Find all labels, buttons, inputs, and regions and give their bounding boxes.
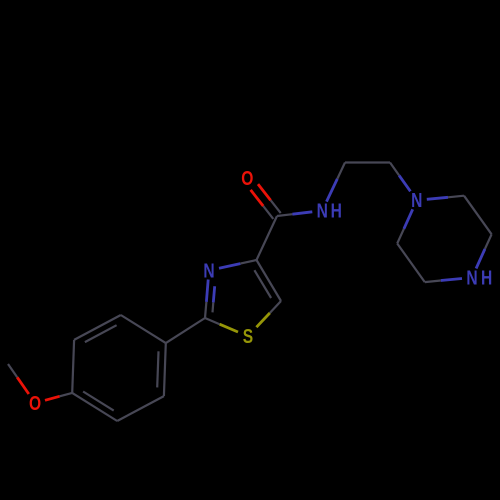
svg-text:N: N — [411, 189, 422, 211]
benzene bond C5-C6 — [72, 340, 74, 393]
piperazine bond N1-C2 — [427, 197, 448, 199]
benzene bond C3-C4 — [117, 396, 164, 421]
benzene bond C6-C1 double — [74, 315, 121, 340]
piperazine bond C5-C6 — [397, 244, 425, 283]
piperazine bond C3-N4 — [485, 234, 492, 249]
benzene bond C4-C5 double — [72, 393, 117, 421]
amide C-N bond — [277, 214, 292, 216]
bond O-phenyl — [45, 396, 60, 400]
svg-text:O: O — [29, 392, 41, 414]
piperazine bond C2-C3 — [464, 196, 492, 235]
svg-text:O: O — [241, 167, 253, 189]
svg-text:N: N — [317, 200, 328, 222]
bond amide N-CH2 — [327, 179, 338, 202]
svg-text:N: N — [203, 260, 214, 282]
carbonyl C=O double — [271, 200, 281, 213]
thiazole bond C2=N3 double — [205, 302, 206, 318]
bond CH3-O methoxy — [8, 364, 17, 377]
bond CH2-CH2 — [345, 161, 390, 163]
svg-text:N: N — [466, 267, 477, 289]
thiazole bond N3-C4 — [219, 264, 240, 269]
svg-text:S: S — [243, 325, 253, 347]
thiazole bond C5-S1 — [270, 301, 281, 313]
bond CH2-N1 piperazine — [390, 163, 399, 176]
svg-text:H: H — [331, 200, 342, 222]
bond phenyl-thiazole — [166, 318, 205, 343]
benzene bond C1-C2 — [121, 315, 166, 343]
benzene bond C2-C3 double — [164, 343, 166, 396]
piperazine bond C6-N1 — [397, 229, 404, 244]
svg-text:H: H — [481, 267, 492, 289]
thiazole bond S1-C2 — [220, 324, 238, 332]
thiazole bond C4=C5 double — [257, 260, 282, 301]
bond thiazole C4-carbonyl C — [257, 216, 278, 260]
piperazine bond N4-C5 — [441, 279, 462, 281]
